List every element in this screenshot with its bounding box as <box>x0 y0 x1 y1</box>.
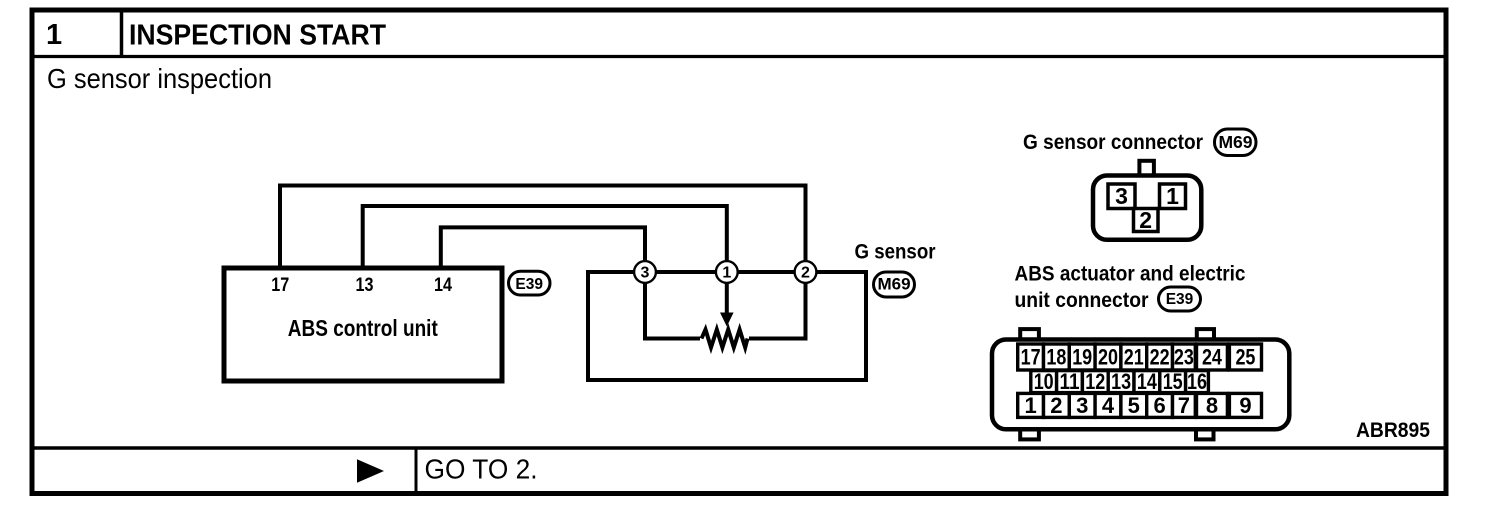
svg-text:1: 1 <box>722 265 731 282</box>
wiper arrowhead <box>720 313 734 327</box>
GO TO arrow <box>357 459 384 483</box>
svg-text:2: 2 <box>1139 207 1152 233</box>
svg-text:ABR895: ABR895 <box>1356 419 1430 442</box>
svg-text:5: 5 <box>1128 393 1140 418</box>
svg-text:4: 4 <box>1102 393 1115 418</box>
svg-text:11: 11 <box>1060 369 1080 394</box>
wire pin 17 to node 2 <box>280 186 806 269</box>
wire node 1 wiper stem <box>725 283 729 314</box>
svg-text:G sensor inspection: G sensor inspection <box>47 63 272 94</box>
connector oval M69 heading <box>1215 129 1257 156</box>
E39 pin row 17-25 <box>1018 344 1262 370</box>
E39 pin row 10-16 <box>1031 369 1209 394</box>
svg-text:13: 13 <box>1111 369 1131 394</box>
svg-text:13: 13 <box>356 275 374 296</box>
G sensor connector drawing: body <box>1093 176 1201 240</box>
connector oval E39 at ABS box <box>509 271 551 295</box>
svg-text:19: 19 <box>1072 345 1092 370</box>
svg-text:3: 3 <box>1076 393 1088 418</box>
svg-text:14: 14 <box>434 275 452 296</box>
node circle 1 <box>716 261 738 283</box>
header cell divider <box>120 10 124 57</box>
connector oval E39 heading <box>1159 287 1201 311</box>
E39 connector drawing: body <box>992 340 1289 430</box>
pin 2 cavity <box>1134 207 1159 233</box>
G sensor box <box>588 272 866 380</box>
svg-text:7: 7 <box>1178 393 1190 418</box>
svg-text:18: 18 <box>1046 345 1066 370</box>
svg-text:E39: E39 <box>1166 291 1194 308</box>
svg-text:17: 17 <box>1021 345 1041 370</box>
node circle 3 <box>634 261 656 283</box>
E39 connector drawing: top tab left <box>1020 329 1039 343</box>
svg-text:25: 25 <box>1235 345 1255 370</box>
node circle 2 <box>795 261 817 283</box>
svg-text:15: 15 <box>1163 369 1183 394</box>
svg-text:1: 1 <box>46 19 62 51</box>
E39 connector drawing: bottom tab left <box>1020 427 1039 439</box>
E39 connector drawing: top tab right <box>1197 329 1214 343</box>
svg-text:23: 23 <box>1174 345 1194 370</box>
G sensor connector drawing: top tab <box>1139 161 1154 177</box>
svg-text:G sensor: G sensor <box>855 240 937 264</box>
svg-text:INSPECTION START: INSPECTION START <box>129 20 386 52</box>
svg-text:10: 10 <box>1034 369 1054 394</box>
svg-text:2: 2 <box>1050 393 1062 418</box>
pin 3 cavity <box>1108 183 1135 209</box>
svg-text:1: 1 <box>1166 183 1179 209</box>
svg-text:20: 20 <box>1098 345 1118 370</box>
ABS control unit box <box>224 268 502 381</box>
svg-text:16: 16 <box>1187 369 1207 394</box>
wire pin 14 to node 3 <box>441 227 645 268</box>
svg-text:17: 17 <box>271 275 289 296</box>
svg-text:ABS control unit: ABS control unit <box>288 315 438 341</box>
wire pin 13 to node 1 <box>363 206 727 268</box>
wire node 2 to resistor right <box>749 283 806 339</box>
svg-text:12: 12 <box>1085 369 1105 394</box>
svg-text:9: 9 <box>1239 393 1251 418</box>
svg-text:1: 1 <box>1024 393 1036 418</box>
svg-text:ABS actuator and electric: ABS actuator and electric <box>1015 263 1246 286</box>
bottom row cell divider <box>415 448 418 494</box>
resistor zigzag <box>702 330 748 348</box>
svg-text:M69: M69 <box>877 275 910 294</box>
svg-text:G sensor connector: G sensor connector <box>1023 131 1203 154</box>
svg-text:E39: E39 <box>515 276 543 293</box>
svg-text:3: 3 <box>641 265 650 282</box>
svg-text:21: 21 <box>1124 345 1144 370</box>
svg-text:unit connector: unit connector <box>1015 289 1149 312</box>
svg-text:8: 8 <box>1206 393 1218 418</box>
E39 connector drawing: bottom tab right <box>1196 427 1214 439</box>
svg-text:3: 3 <box>1115 183 1128 209</box>
svg-text:GO TO 2.: GO TO 2. <box>425 454 538 485</box>
wire node 3 to resistor left <box>645 283 700 339</box>
header row bottom line <box>30 55 1449 58</box>
svg-text:6: 6 <box>1153 393 1165 418</box>
svg-text:2: 2 <box>801 265 810 282</box>
svg-text:24: 24 <box>1202 345 1223 370</box>
E39 pin row 1-9 <box>1018 393 1262 418</box>
bottom row top line <box>30 446 1449 450</box>
connector oval M69 at G sensor <box>874 272 915 297</box>
svg-text:14: 14 <box>1137 369 1158 394</box>
pin 1 cavity <box>1160 183 1186 209</box>
svg-text:22: 22 <box>1150 345 1170 370</box>
svg-text:M69: M69 <box>1218 132 1252 152</box>
